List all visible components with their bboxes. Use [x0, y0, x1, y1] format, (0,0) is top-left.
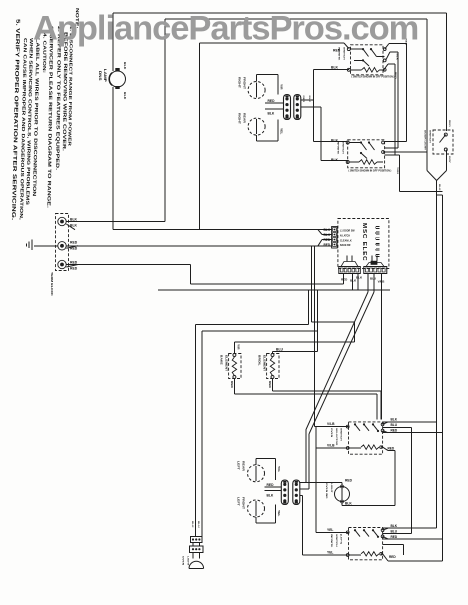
svg-text:RED: RED	[267, 483, 275, 487]
svg-text:RED: RED	[302, 96, 305, 103]
svg-text:SWITCH: SWITCH	[429, 130, 432, 143]
svg-text:LIGHT: LIGHT	[330, 483, 333, 493]
svg-text:YEL: YEL	[327, 528, 333, 532]
svg-text:BLK: BLK	[391, 524, 398, 528]
svg-text:RED: RED	[345, 479, 353, 483]
svg-text:REAR: REAR	[243, 113, 246, 124]
svg-text:BLU: BLU	[391, 529, 398, 533]
svg-text:SELECTOR: SELECTOR	[335, 428, 338, 445]
svg-text:RIGHT: RIGHT	[238, 113, 241, 124]
svg-text:BLK: BLK	[331, 65, 339, 69]
svg-text:BLK: BLK	[268, 112, 275, 116]
svg-text:RED: RED	[70, 241, 78, 245]
svg-text:BLK: BLK	[123, 62, 126, 70]
svg-text:Y/R2: Y/R2	[396, 167, 399, 175]
svg-text:FRONT: FRONT	[243, 77, 246, 89]
svg-text:LAMP: LAMP	[103, 69, 107, 82]
svg-text:BLK: BLK	[396, 54, 399, 61]
svg-text:BLK: BLK	[324, 228, 331, 232]
svg-text:INFINITE: INFINITE	[337, 141, 340, 155]
svg-text:REAR: REAR	[242, 461, 245, 472]
svg-text:RED: RED	[394, 72, 397, 79]
svg-text:LEFT: LEFT	[237, 497, 240, 506]
svg-text:DNS: DNS	[98, 71, 102, 81]
svg-text:SWITCH: SWITCH	[343, 47, 346, 60]
svg-text:RED: RED	[268, 99, 276, 103]
svg-text:Y/R: Y/R	[237, 344, 240, 349]
svg-text:YEL: YEL	[280, 128, 283, 135]
svg-text:BLU: BLU	[276, 347, 284, 351]
svg-text:INFINITE: INFINITE	[338, 47, 341, 61]
svg-text:RED: RED	[448, 120, 451, 127]
svg-text:BLK: BLK	[308, 96, 311, 103]
svg-text:OVEN: OVEN	[182, 556, 185, 565]
svg-text:INFINITE: INFINITE	[330, 534, 333, 548]
svg-text:RED: RED	[230, 381, 233, 388]
svg-text:RED: RED	[391, 535, 398, 539]
svg-text:BAKE: BAKE	[220, 355, 223, 365]
svg-text:GRY: GRY	[448, 156, 451, 163]
svg-text:ELEMENT: ELEMENT	[224, 355, 227, 371]
svg-text:CLEAN LK: CLEAN LK	[340, 240, 352, 243]
svg-text:( SWITCH SHOWN IN OFF POSITION: ( SWITCH SHOWN IN OFF POSITION )	[352, 76, 395, 79]
svg-text:BROIL: BROIL	[258, 355, 261, 366]
svg-text:RED: RED	[341, 278, 348, 282]
svg-text:Y/R: Y/R	[280, 84, 283, 89]
svg-text:BAKE BR: BAKE BR	[340, 244, 351, 247]
svg-text:N LATCH: N LATCH	[340, 235, 350, 238]
svg-text:LEFT: LEFT	[237, 461, 240, 470]
svg-text:OVEN: OVEN	[330, 428, 333, 437]
svg-text:AppliancePartsPros.com: AppliancePartsPros.com	[33, 10, 418, 48]
svg-text:SWITCH: SWITCH	[342, 141, 345, 154]
svg-text:DOOR LIGHT: DOOR LIGHT	[424, 130, 427, 150]
svg-text:BLK: BLK	[356, 276, 363, 280]
svg-text:TERM BLOCK: TERM BLOCK	[50, 272, 53, 297]
svg-text:MSC ELEC: MSC ELEC	[361, 223, 366, 261]
svg-text:(LEFT): (LEFT)	[340, 534, 343, 544]
svg-text:SWITCH: SWITCH	[340, 428, 343, 441]
svg-text:BLK: BLK	[191, 521, 194, 528]
svg-text:BLK: BLK	[324, 233, 331, 237]
svg-text:BLK: BLK	[70, 217, 78, 221]
svg-text:RED: RED	[268, 381, 271, 388]
svg-text:( SWITCH SHOWN IN OFF POSITION: ( SWITCH SHOWN IN OFF POSITION )	[349, 170, 392, 173]
svg-text:BLK: BLK	[331, 158, 339, 162]
svg-text:FRONT: FRONT	[242, 497, 245, 509]
svg-text:V/LB: V/LB	[327, 444, 335, 448]
svg-text:BLU: BLU	[370, 277, 376, 281]
svg-text:Y/G: Y/G	[277, 466, 280, 473]
svg-text:RED: RED	[389, 555, 396, 559]
svg-text:ELEMENT: ELEMENT	[262, 355, 265, 371]
svg-text:YEL: YEL	[327, 551, 333, 555]
svg-text:YEL: YEL	[277, 510, 280, 517]
svg-text:V/LB: V/LB	[327, 422, 335, 426]
svg-text:BLK: BLK	[438, 184, 441, 191]
svg-text:BLK: BLK	[123, 92, 126, 100]
svg-text:RED: RED	[324, 238, 331, 242]
svg-text:BLU: BLU	[197, 521, 200, 528]
svg-text:V/LB: V/LB	[378, 280, 386, 284]
svg-text:RED: RED	[70, 260, 78, 264]
svg-text:LIGHT: LIGHT	[187, 556, 190, 566]
svg-text:BLK: BLK	[391, 418, 398, 422]
svg-text:L1 DOOR SW: L1 DOOR SW	[340, 231, 355, 233]
svg-text:RED: RED	[391, 429, 398, 433]
svg-text:RIGHT: RIGHT	[238, 77, 241, 88]
svg-text:SWITCH: SWITCH	[335, 534, 338, 547]
svg-text:BLK: BLK	[345, 501, 352, 505]
svg-text:RED: RED	[324, 243, 331, 247]
svg-text:BLU: BLU	[391, 423, 398, 427]
svg-text:OVEN IND: OVEN IND	[325, 483, 328, 498]
svg-text:BLK: BLK	[267, 493, 274, 497]
svg-text:RED: RED	[70, 266, 78, 270]
svg-text:RED: RED	[388, 446, 395, 450]
